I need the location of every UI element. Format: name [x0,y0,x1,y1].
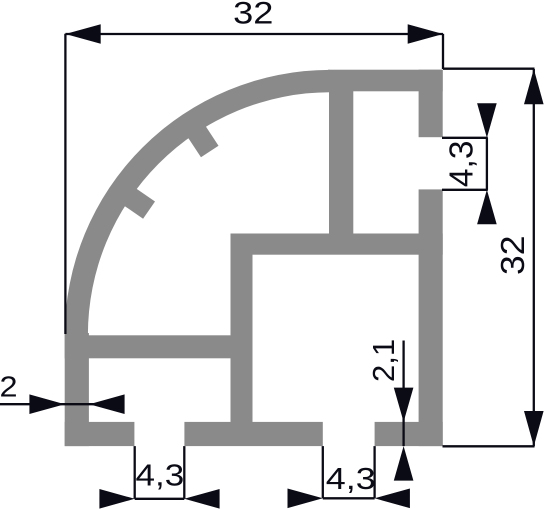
svg-text:4,3: 4,3 [444,141,481,188]
profile locking tooth lower [118,184,155,218]
svg-text:32: 32 [495,236,532,275]
dim bottom-right 4,3: left arrowhead [288,489,323,509]
profile bottom wall right segment [375,422,443,446]
profile top wall [328,70,443,92]
profile right wall lower segment [419,189,443,446]
dim left 2: left-pointing arrowhead [89,394,124,414]
dim 2,1: down arrowhead [394,388,414,422]
dim right 32: bottom arrowhead [524,411,544,446]
dim top 32: left arrowhead [65,24,100,44]
dim left 2: dimension line [0,403,121,405]
dim bottom-right 4,3: right extension line [373,446,375,498]
dim right 32: bottom extension line [443,445,535,447]
dim right 4,3: bottom extension line [442,189,488,191]
profile curved outer wall (quarter annulus) [65,70,330,335]
dim right 32: top extension line [443,68,535,70]
profile right wall upper segment [419,70,443,138]
dim 2,1: dimension line upper [402,341,404,447]
dim 2,1: up arrowhead [394,446,414,481]
profile locking tooth upper [184,121,218,158]
dim top 32: right extension line [442,34,444,69]
dim bottom-left 4,3: dimension line [135,498,185,500]
dim top 32: left extension line [64,34,66,334]
dim top 32: right arrowhead [408,24,443,44]
dim right 4,3: lower arrowhead [477,190,497,225]
dim right 32: top arrowhead [524,69,544,104]
svg-text:32: 32 [233,0,273,31]
dim bottom-left 4,3: left arrowhead [99,489,134,509]
dim right 4,3: dimension line [486,138,488,190]
profile bottom wall left segment [65,422,135,446]
dim left 2: right-pointing arrowhead [29,394,64,414]
svg-text:2,1: 2,1 [366,339,401,382]
profile central vertical bar [329,90,353,234]
profile middle horizontal bar [231,234,443,255]
dim bottom-left 4,3: right extension line [183,446,185,499]
dim right 4,3: top extension line [442,137,488,139]
dim bottom-left 4,3: right arrowhead [184,489,219,509]
profile bottom wall middle segment [184,422,322,446]
dim right 4,3: upper arrowhead [477,103,497,138]
dim bottom-right 4,3: dimension line [323,497,375,499]
profile bottom-left chamber bar [65,335,253,358]
dim bottom-right 4,3: right arrowhead [375,489,410,509]
dim bottom-left 4,3: left extension line [134,446,136,499]
dim top 32: dimension line [65,33,443,35]
svg-text:4,3: 4,3 [136,459,185,494]
svg-text:2: 2 [0,370,18,403]
svg-text:4,3: 4,3 [326,462,376,496]
dim right 32: dimension line [533,69,535,446]
dim bottom-right 4,3: left extension line [322,446,324,498]
profile left wall [65,333,89,446]
profile chamber divider wall [231,234,253,424]
